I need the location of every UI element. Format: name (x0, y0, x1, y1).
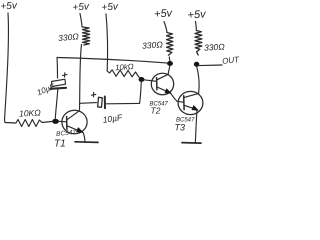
ground bar T1 (75, 141, 98, 144)
junction dot: T2 base node (139, 77, 145, 82)
svg-text:10µF: 10µF (36, 82, 57, 98)
wire: bus corner down to C1 (56, 58, 59, 79)
svg-text:T3: T3 (175, 123, 186, 133)
wire: OUT node down to T3 collector (197, 67, 199, 94)
transistor T3 BC547 (178, 91, 203, 114)
svg-text:+5v: +5v (154, 7, 174, 20)
resistor R3 10kΩ (T2 base resistor) (107, 70, 141, 79)
capacitor C1 10µF (polarized, between bus and T1 base) (52, 79, 66, 86)
plus sign of C1 (63, 73, 68, 77)
svg-text:+5v: +5v (101, 1, 119, 13)
wire: T2 emitter to T3 base (171, 93, 178, 101)
+5V label 3 (101, 1, 119, 13)
+5V label 1 (top-left) (0, 0, 18, 12)
wire: C2 right riser up to T2 base node (140, 82, 142, 104)
resistor R4 330Ω (T2 collector load) (164, 22, 167, 33)
resistor R2 330Ω (T1 collector load) (80, 14, 82, 28)
svg-text:330Ω: 330Ω (142, 39, 164, 50)
svg-text:OUT: OUT (222, 55, 240, 66)
+5V label 5 (187, 8, 207, 21)
wire: OUT (199, 64, 222, 67)
wire: +5V rail 3 down to R3 (106, 14, 108, 71)
svg-text:10µF: 10µF (102, 112, 124, 125)
wire: bus from C1 top to T2 collector node (57, 58, 170, 64)
svg-text:+5v: +5v (72, 1, 90, 13)
wire: left +5V rail down to R1 (5, 13, 9, 120)
svg-text:+5v: +5v (0, 0, 18, 12)
svg-text:330Ω: 330Ω (58, 31, 80, 43)
svg-text:BC547: BC547 (56, 129, 77, 138)
svg-text:T2: T2 (151, 106, 161, 116)
svg-text:+5v: +5v (187, 8, 207, 21)
resistor R5 330Ω (T3 collector load) (195, 22, 198, 31)
plus sign of C2 (92, 92, 96, 96)
wire: R2 to T1 collector (80, 45, 82, 111)
junction dot: T2 collector node (167, 61, 173, 66)
wire: T2 collector node to circle (168, 66, 170, 74)
ground bar T3 (182, 142, 201, 145)
transistor T2 BC547 (151, 73, 173, 95)
junction dot: T1 base node (52, 119, 59, 124)
svg-text:330Ω: 330Ω (204, 42, 226, 53)
resistor R1 10kΩ (T1 base resistor) (5, 120, 52, 127)
svg-text:10KΩ: 10KΩ (19, 107, 42, 118)
wire: R4 to T2 collector node (168, 57, 171, 61)
transistor T1 BC547 (62, 110, 87, 134)
+5V label 4 (154, 7, 174, 20)
capacitor C2 10µF (T1 collector to T2 base) (80, 102, 97, 105)
svg-text:10kΩ: 10kΩ (115, 62, 134, 72)
junction dot: T3 collector / OUT node (194, 62, 199, 67)
+5V label 2 (72, 1, 90, 13)
svg-text:T1: T1 (54, 139, 66, 150)
